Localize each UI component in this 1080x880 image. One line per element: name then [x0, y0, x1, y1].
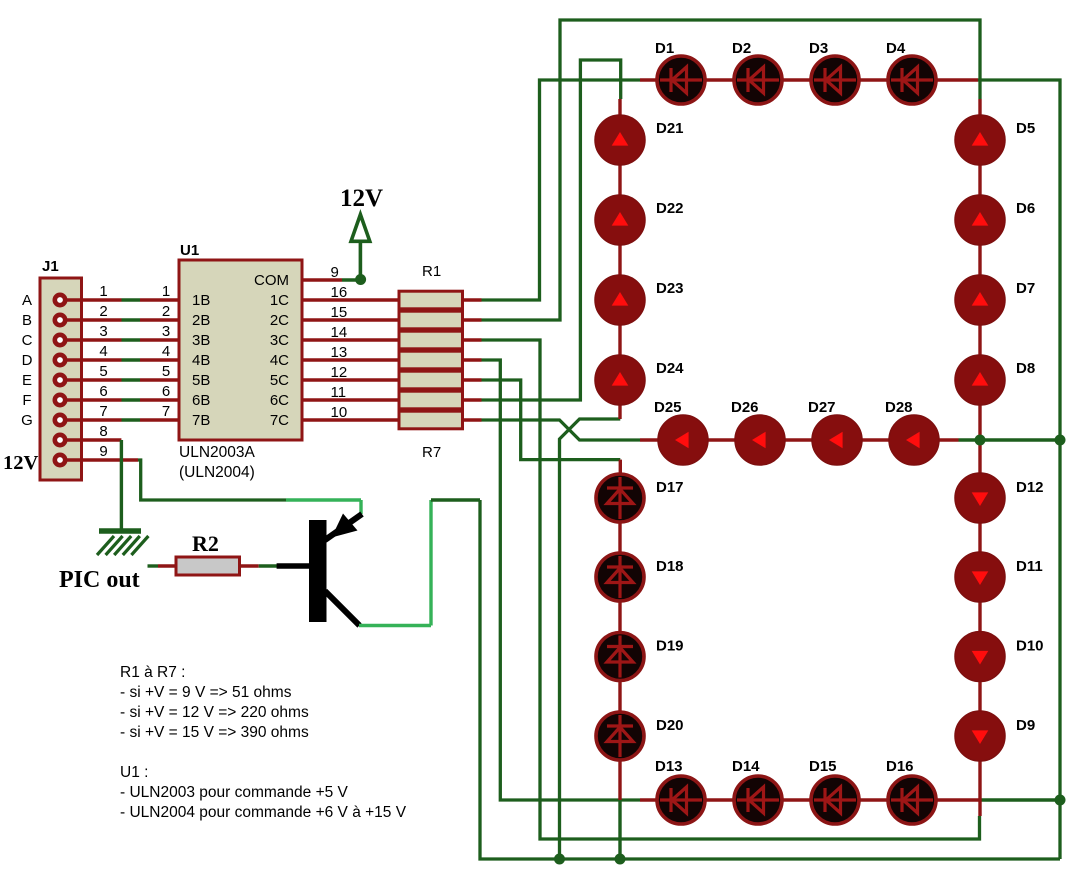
wire J1 pin 8: [64, 438, 121, 441]
svg-text:7: 7: [162, 403, 170, 420]
label U1: [180, 242, 199, 259]
svg-text:D4: D4: [886, 40, 906, 57]
net 3C to segment C bottom: [482, 340, 980, 839]
svg-text:D16: D16: [886, 758, 914, 775]
svg-text:13: 13: [331, 344, 348, 361]
svg-text:4C: 4C: [270, 352, 289, 369]
pin number 9: [331, 264, 339, 281]
svg-text:3: 3: [162, 323, 170, 340]
wire J1 pin 8 down to ground: [120, 440, 123, 529]
svg-text:- ULN2003 pour commande +5 V: - ULN2003 pour commande +5 V: [120, 784, 349, 801]
svg-text:R7: R7: [422, 444, 441, 461]
svg-text:8: 8: [99, 423, 107, 440]
svg-text:6B: 6B: [192, 392, 210, 409]
label R7: [422, 444, 441, 461]
svg-text:2C: 2C: [270, 312, 289, 329]
svg-text:D12: D12: [1016, 479, 1044, 496]
LED D11: [955, 552, 1043, 602]
label J1: [42, 258, 59, 275]
svg-text:R2: R2: [192, 531, 219, 556]
svg-text:D18: D18: [656, 558, 684, 575]
svg-text:D17: D17: [656, 479, 684, 496]
label 12V: [340, 185, 383, 212]
junction bottom rail at F common: [554, 854, 565, 865]
svg-text:D14: D14: [732, 758, 760, 775]
pin numbers 16-10: [331, 284, 348, 421]
svg-text:(ULN2004): (ULN2004): [179, 464, 255, 481]
svg-text:D8: D8: [1016, 360, 1035, 377]
wires J1 pins 1-7 to U1 inputs: [64, 300, 179, 420]
notes R1 a R7 values: [120, 664, 309, 741]
net 5C to segment E top: [482, 380, 621, 460]
LED D21: [595, 115, 684, 165]
IC U1 ULN2003A: [179, 260, 302, 440]
svg-text:R1: R1: [422, 263, 441, 280]
wire segment A row: [640, 78, 978, 81]
wire segment G row to right rail: [959, 438, 1061, 441]
svg-text:D25: D25: [654, 399, 682, 416]
junction right rail at D row: [1055, 795, 1066, 806]
junction right rail at G row: [1055, 435, 1066, 446]
svg-text:D26: D26: [731, 399, 759, 416]
svg-text:D15: D15: [809, 758, 837, 775]
U1 pin names 1B-7B: [192, 292, 210, 429]
ground: [97, 531, 148, 555]
wire segment G row: [640, 438, 959, 441]
svg-text:- si +V = 12 V => 220 ohms: - si +V = 12 V => 220 ohms: [120, 704, 309, 721]
LED D19: [596, 633, 684, 681]
svg-text:E: E: [22, 372, 32, 389]
svg-text:F: F: [22, 392, 31, 409]
svg-text:11: 11: [331, 384, 347, 401]
net 7C to segment G crossover: [482, 420, 641, 440]
connector J1: [40, 278, 82, 480]
svg-text:COM: COM: [254, 272, 289, 289]
net 6C to segment F top: [482, 60, 621, 400]
pin numbers 1-9 at J1: [99, 283, 107, 460]
wire segment B C column right: [978, 99, 981, 816]
svg-text:G: G: [21, 412, 33, 429]
LED D10: [955, 632, 1044, 682]
label 12V at J1 pin 9: [3, 452, 39, 474]
LED D24: [595, 355, 684, 405]
label PIC out: [59, 567, 140, 593]
LED D8: [955, 355, 1035, 405]
junction bottom rail at E common: [615, 854, 626, 865]
U1 pin names COM 1C-7C: [254, 272, 289, 429]
wire J1 pin 9 to transistor emitter (12V): [64, 460, 361, 514]
LED D2: [732, 40, 782, 104]
common rail bottom: [480, 500, 1060, 859]
svg-text:D19: D19: [656, 638, 684, 655]
wire U1 COM pin 9 to 12V tap: [302, 278, 361, 281]
svg-text:D27: D27: [808, 399, 836, 416]
LED D23: [595, 275, 684, 325]
LED D13: [655, 758, 705, 824]
label R2: [192, 531, 219, 556]
svg-text:12V: 12V: [3, 452, 39, 474]
svg-text:D: D: [22, 352, 33, 369]
LED D28: [885, 399, 939, 465]
junction 12V tap: [355, 274, 366, 285]
svg-text:D21: D21: [656, 120, 684, 137]
LED D18: [596, 553, 684, 601]
svg-text:D23: D23: [656, 280, 684, 297]
resistor R2: [176, 557, 240, 575]
svg-text:D6: D6: [1016, 200, 1035, 217]
LED D16: [886, 758, 936, 824]
svg-text:D2: D2: [732, 40, 751, 57]
svg-text:4: 4: [99, 343, 107, 360]
svg-text:14: 14: [331, 324, 348, 341]
svg-text:D11: D11: [1016, 558, 1043, 575]
svg-text:5B: 5B: [192, 372, 210, 389]
wire segment E bottom to common: [618, 800, 621, 859]
LED D25: [654, 399, 708, 465]
svg-text:U1: U1: [180, 242, 199, 259]
power +12V symbol: [351, 215, 370, 277]
LED D7: [955, 275, 1035, 325]
LED D5: [955, 115, 1035, 165]
svg-text:C: C: [22, 332, 33, 349]
svg-text:10: 10: [331, 404, 348, 421]
svg-text:1C: 1C: [270, 292, 289, 309]
LED D12: [955, 473, 1044, 523]
svg-text:U1 :: U1 :: [120, 764, 148, 781]
wire collector to common rail: [359, 500, 480, 626]
svg-text:J1: J1: [42, 258, 59, 275]
LED D14: [732, 758, 782, 824]
svg-text:- si +V = 9 V => 51 ohms: - si +V = 9 V => 51 ohms: [120, 684, 292, 701]
svg-text:5: 5: [162, 363, 170, 380]
svg-text:4: 4: [162, 343, 170, 360]
svg-text:D1: D1: [655, 40, 674, 57]
svg-text:- si +V = 15 V => 390 ohms: - si +V = 15 V => 390 ohms: [120, 724, 309, 741]
LED D26: [731, 399, 785, 465]
LED D4: [886, 40, 936, 104]
LED D1: [655, 40, 705, 104]
transistor Q1 PNP: [277, 514, 362, 626]
svg-text:15: 15: [331, 304, 348, 321]
svg-text:1B: 1B: [192, 292, 210, 309]
svg-text:7C: 7C: [270, 412, 289, 429]
svg-text:ULN2003A: ULN2003A: [179, 444, 255, 461]
svg-text:B: B: [22, 312, 32, 329]
svg-text:16: 16: [331, 284, 348, 301]
wire PIC out to R2: [148, 564, 177, 567]
LED D3: [809, 40, 859, 104]
junction segment B/C/G node: [975, 435, 986, 446]
svg-text:7: 7: [99, 403, 107, 420]
svg-text:D13: D13: [655, 758, 683, 775]
svg-text:D9: D9: [1016, 717, 1035, 734]
svg-text:D3: D3: [809, 40, 828, 57]
svg-text:9: 9: [331, 264, 339, 281]
svg-text:5: 5: [99, 363, 107, 380]
svg-text:5C: 5C: [270, 372, 289, 389]
LED D27: [808, 399, 862, 465]
LED D9: [955, 711, 1035, 761]
wire segment D row: [640, 798, 980, 801]
resistors R1-R7: [399, 291, 463, 429]
svg-text:2: 2: [99, 303, 107, 320]
svg-text:1: 1: [162, 283, 170, 300]
svg-text:6: 6: [162, 383, 170, 400]
wire segment F column: [618, 99, 621, 419]
svg-text:2B: 2B: [192, 312, 210, 329]
svg-text:D10: D10: [1016, 638, 1044, 655]
svg-text:D7: D7: [1016, 280, 1035, 297]
svg-text:D28: D28: [885, 399, 913, 416]
svg-text:2: 2: [162, 303, 170, 320]
svg-text:D24: D24: [656, 360, 684, 377]
svg-text:7B: 7B: [192, 412, 210, 429]
svg-text:D20: D20: [656, 717, 684, 734]
net 1C to segment A: [482, 80, 641, 300]
wires U1 outputs to resistor network: [302, 300, 482, 420]
svg-text:12V: 12V: [340, 185, 383, 212]
wire segment D row to common right rail: [980, 798, 1061, 801]
label R1: [422, 263, 441, 280]
net 4C to segment D: [482, 360, 641, 800]
J1 input labels A-G: [21, 292, 33, 429]
svg-text:1: 1: [99, 283, 107, 300]
svg-text:3C: 3C: [270, 332, 289, 349]
svg-text:6C: 6C: [270, 392, 289, 409]
svg-text:- ULN2004 pour commande +6 V à: - ULN2004 pour commande +6 V à +15 V: [120, 804, 407, 821]
LED D6: [955, 195, 1035, 245]
LED D17: [596, 474, 684, 522]
svg-text:D22: D22: [656, 200, 684, 217]
svg-text:D5: D5: [1016, 120, 1035, 137]
svg-text:A: A: [22, 292, 32, 309]
wire segment F bottom to common crossover: [560, 419, 621, 859]
label ULN2003A (ULN2004): [179, 444, 255, 481]
wire R2 to transistor base: [240, 564, 278, 567]
svg-text:R1 à R7 :: R1 à R7 :: [120, 664, 185, 681]
svg-text:6: 6: [99, 383, 107, 400]
svg-text:4B: 4B: [192, 352, 210, 369]
wire segment E column: [618, 460, 622, 800]
svg-text:PIC out: PIC out: [59, 567, 140, 593]
pin numbers 1-7 at U1 inputs: [162, 283, 170, 420]
right common rail: [978, 80, 1060, 859]
svg-text:9: 9: [99, 443, 107, 460]
LED D15: [809, 758, 859, 824]
svg-text:3: 3: [99, 323, 107, 340]
svg-text:12: 12: [331, 364, 348, 381]
LED D22: [595, 195, 684, 245]
svg-text:3B: 3B: [192, 332, 210, 349]
net 2C to segment B top: [482, 20, 981, 320]
LED D20: [596, 712, 684, 760]
notes U1 variants: [120, 764, 407, 821]
